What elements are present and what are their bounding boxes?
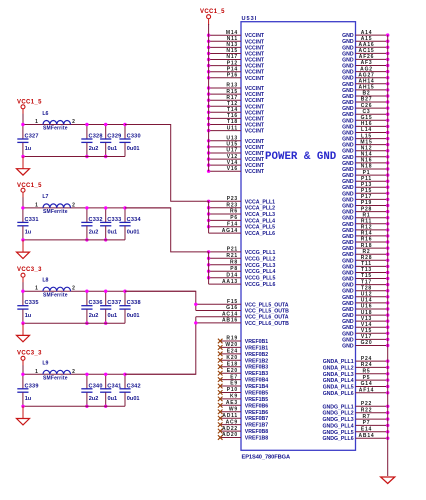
svg-text:GNDA_PLL3: GNDA_PLL3	[323, 372, 354, 378]
svg-text:AG27: AG27	[358, 72, 374, 78]
svg-text:VREF1B6: VREF1B6	[245, 410, 268, 416]
svg-text:VCCINT: VCCINT	[245, 139, 265, 145]
svg-text:VCCINT: VCCINT	[245, 92, 265, 98]
svg-text:C331: C331	[25, 217, 39, 223]
svg-text:GND: GND	[342, 325, 354, 331]
svg-text:N12: N12	[361, 145, 373, 151]
svg-text:C26: C26	[361, 103, 373, 109]
svg-text:U16: U16	[361, 304, 373, 310]
svg-text:E20: E20	[227, 368, 238, 374]
svg-text:R5: R5	[363, 369, 371, 375]
svg-text:M14: M14	[226, 30, 238, 36]
svg-text:SMFerrite: SMFerrite	[43, 126, 68, 132]
svg-text:1u: 1u	[25, 396, 32, 402]
svg-text:1u: 1u	[25, 230, 32, 236]
svg-text:F15: F15	[227, 299, 238, 305]
svg-text:EP1S40_780FBGA: EP1S40_780FBGA	[242, 455, 291, 461]
svg-text:N17: N17	[226, 54, 238, 60]
svg-text:AD11: AD11	[222, 413, 238, 419]
svg-text:VREF0B2: VREF0B2	[245, 352, 268, 358]
svg-text:P22: P22	[361, 401, 372, 407]
svg-text:V17: V17	[361, 334, 372, 340]
svg-text:VCC_PLL6_OUTB: VCC_PLL6_OUTB	[245, 321, 289, 327]
svg-text:VCCA_PLL4: VCCA_PLL4	[245, 218, 275, 224]
svg-text:GNDG_PLL6: GNDG_PLL6	[322, 436, 353, 442]
svg-text:D14: D14	[226, 272, 238, 278]
svg-text:W9: W9	[229, 407, 238, 413]
svg-text:L9: L9	[42, 361, 48, 367]
svg-text:GND: GND	[342, 39, 354, 45]
svg-text:GND: GND	[342, 222, 354, 228]
svg-text:AF14: AF14	[359, 388, 374, 394]
svg-text:C329: C329	[107, 134, 121, 140]
svg-text:VREF1B8: VREF1B8	[245, 436, 268, 442]
svg-text:C338: C338	[127, 300, 141, 306]
svg-text:2u2: 2u2	[89, 396, 99, 402]
svg-text:T17: T17	[361, 279, 372, 285]
svg-text:VCCA_PLL2: VCCA_PLL2	[245, 206, 275, 212]
svg-text:C333: C333	[107, 217, 121, 223]
svg-text:GND: GND	[342, 106, 354, 112]
svg-text:2: 2	[72, 119, 75, 125]
svg-text:R16: R16	[361, 237, 373, 243]
svg-text:0u01: 0u01	[127, 396, 140, 402]
svg-text:VREF0B6: VREF0B6	[245, 403, 268, 409]
svg-text:VREF0B5: VREF0B5	[245, 391, 268, 397]
svg-text:N11: N11	[227, 36, 238, 42]
svg-text:C330: C330	[127, 134, 141, 140]
svg-text:P13: P13	[361, 182, 372, 188]
svg-text:P14: P14	[227, 66, 238, 72]
svg-text:VCC1_5: VCC1_5	[17, 100, 42, 106]
svg-text:C337: C337	[107, 300, 121, 306]
svg-text:GND: GND	[342, 307, 354, 313]
svg-text:P16: P16	[227, 73, 238, 79]
svg-text:GND: GND	[342, 57, 354, 63]
svg-text:VCCINT: VCCINT	[245, 110, 265, 116]
svg-text:VCCA_PLL6: VCCA_PLL6	[245, 231, 275, 237]
svg-text:GND: GND	[342, 64, 354, 70]
svg-text:GNDA_PLL5: GNDA_PLL5	[323, 385, 354, 391]
svg-text:AC14: AC14	[222, 311, 238, 317]
svg-text:C339: C339	[25, 383, 39, 389]
svg-text:VREF1B7: VREF1B7	[245, 423, 268, 429]
svg-text:U15: U15	[226, 142, 238, 148]
svg-text:VREF0B3: VREF0B3	[245, 365, 268, 371]
svg-text:0u01: 0u01	[127, 230, 140, 236]
svg-text:GNDG_PLL4: GNDG_PLL4	[322, 423, 353, 429]
svg-text:VREF1B3: VREF1B3	[245, 371, 268, 377]
svg-text:0u01: 0u01	[127, 313, 140, 319]
svg-text:T18: T18	[227, 119, 238, 125]
svg-text:GND: GND	[342, 283, 354, 289]
svg-text:VCCA_PLL1: VCCA_PLL1	[245, 199, 275, 205]
svg-text:GND: GND	[342, 88, 354, 94]
svg-text:VCCINT: VCCINT	[245, 151, 265, 157]
svg-text:M15: M15	[360, 139, 372, 145]
svg-text:C327: C327	[25, 134, 39, 140]
svg-text:VCCG_PLL6: VCCG_PLL6	[245, 282, 276, 288]
svg-text:K9: K9	[230, 394, 238, 400]
svg-text:R2: R2	[363, 249, 371, 255]
svg-text:1: 1	[35, 119, 38, 125]
svg-text:GNDG_PLL2: GNDG_PLL2	[322, 411, 353, 417]
svg-text:V15: V15	[361, 328, 372, 334]
svg-text:AH15: AH15	[359, 85, 375, 91]
svg-text:H16: H16	[361, 121, 373, 127]
svg-text:GND: GND	[342, 33, 354, 39]
svg-text:R19: R19	[226, 336, 238, 342]
svg-text:SMFerrite: SMFerrite	[43, 292, 68, 298]
svg-text:GND: GND	[342, 131, 354, 137]
svg-text:P17: P17	[361, 194, 372, 200]
svg-text:VCCINT: VCCINT	[245, 70, 265, 76]
svg-text:VCCINT: VCCINT	[245, 58, 265, 64]
svg-text:0u1: 0u1	[108, 396, 118, 402]
svg-text:P10: P10	[227, 387, 238, 393]
svg-text:GNDA_PLL4: GNDA_PLL4	[323, 378, 354, 384]
svg-text:VREF0B7: VREF0B7	[245, 416, 268, 422]
svg-text:AD22: AD22	[222, 426, 238, 432]
svg-text:W20: W20	[225, 342, 238, 348]
svg-text:VCCG_PLL3: VCCG_PLL3	[245, 263, 276, 269]
svg-text:E24: E24	[227, 349, 238, 355]
svg-text:VCC1_5: VCC1_5	[17, 183, 42, 189]
svg-text:1: 1	[35, 369, 38, 375]
svg-text:0u1: 0u1	[108, 146, 118, 152]
svg-text:VCCINT: VCCINT	[245, 98, 265, 104]
svg-text:U14: U14	[361, 298, 373, 304]
svg-text:V16: V16	[227, 166, 238, 172]
svg-text:GND: GND	[342, 82, 354, 88]
svg-text:VREF0B1: VREF0B1	[245, 339, 268, 345]
svg-text:P15: P15	[361, 188, 372, 194]
svg-text:AD20: AD20	[222, 432, 238, 438]
svg-text:T15: T15	[361, 273, 372, 279]
svg-text:P8: P8	[230, 266, 238, 272]
svg-text:VCCA_PLL5: VCCA_PLL5	[245, 225, 275, 231]
svg-text:R23: R23	[226, 202, 238, 208]
svg-text:T11: T11	[361, 261, 372, 267]
svg-text:U13: U13	[226, 136, 238, 142]
svg-text:P5: P5	[363, 375, 371, 381]
svg-text:AB16: AB16	[222, 318, 238, 324]
svg-text:C342: C342	[127, 383, 141, 389]
svg-text:GND: GND	[342, 204, 354, 210]
svg-text:GND: GND	[342, 124, 354, 130]
svg-text:N16: N16	[361, 158, 373, 164]
svg-text:B27: B27	[361, 97, 373, 103]
svg-text:C334: C334	[127, 217, 142, 223]
svg-text:R18: R18	[361, 243, 373, 249]
svg-text:GND: GND	[342, 149, 354, 155]
svg-text:0u1: 0u1	[108, 313, 118, 319]
svg-text:GND: GND	[342, 258, 354, 264]
svg-text:GND: GND	[342, 191, 354, 197]
svg-text:L7: L7	[42, 194, 48, 200]
svg-text:GND: GND	[342, 216, 354, 222]
svg-text:AG14: AG14	[222, 228, 238, 234]
svg-text:POWER & GND: POWER & GND	[265, 151, 337, 163]
svg-text:GND: GND	[342, 173, 354, 179]
svg-text:T16: T16	[227, 113, 238, 119]
svg-text:VCCG_PLL4: VCCG_PLL4	[245, 269, 276, 275]
svg-text:P28: P28	[361, 206, 372, 212]
svg-text:GND: GND	[342, 295, 354, 301]
svg-text:GND: GND	[342, 234, 354, 240]
svg-text:G20: G20	[361, 340, 373, 346]
svg-text:AH14: AH14	[359, 79, 375, 85]
svg-text:2u2: 2u2	[89, 313, 99, 319]
svg-text:P19: P19	[361, 200, 372, 206]
svg-text:C335: C335	[25, 300, 39, 306]
svg-text:0u1: 0u1	[108, 230, 118, 236]
svg-text:GND: GND	[342, 264, 354, 270]
svg-text:T14: T14	[227, 107, 238, 113]
svg-text:K20: K20	[226, 355, 238, 361]
svg-text:GND: GND	[342, 197, 354, 203]
svg-text:1: 1	[35, 286, 38, 292]
svg-text:AA13: AA13	[222, 279, 238, 285]
svg-text:VREF1B5: VREF1B5	[245, 397, 268, 403]
svg-text:SMFerrite: SMFerrite	[43, 376, 68, 382]
svg-text:AC9: AC9	[226, 419, 238, 425]
svg-text:AB14: AB14	[359, 433, 375, 439]
svg-text:GND: GND	[342, 337, 354, 343]
svg-text:T28: T28	[361, 285, 372, 291]
svg-text:R15: R15	[226, 89, 238, 95]
svg-text:GND: GND	[342, 76, 354, 82]
svg-text:1u: 1u	[25, 146, 32, 152]
svg-text:VCC_PLL6_OUTA: VCC_PLL6_OUTA	[245, 315, 289, 321]
svg-text:2u2: 2u2	[89, 230, 99, 236]
svg-text:C3: C3	[363, 109, 371, 115]
svg-text:GND: GND	[342, 70, 354, 76]
svg-text:U11: U11	[227, 125, 238, 131]
svg-text:L14: L14	[361, 127, 372, 133]
svg-text:GND: GND	[342, 167, 354, 173]
svg-text:V13: V13	[361, 316, 372, 322]
svg-text:GND: GND	[342, 289, 354, 295]
svg-text:U17: U17	[226, 148, 238, 154]
svg-text:GND: GND	[342, 277, 354, 283]
svg-text:0u01: 0u01	[127, 146, 140, 152]
svg-text:GND: GND	[342, 331, 354, 337]
svg-text:R11: R11	[361, 219, 372, 225]
svg-text:GND: GND	[342, 240, 354, 246]
svg-text:E14: E14	[361, 427, 372, 433]
svg-text:C341: C341	[107, 383, 121, 389]
svg-text:VCCG_PLL1: VCCG_PLL1	[245, 250, 276, 256]
svg-text:P24: P24	[361, 356, 372, 362]
svg-text:R13: R13	[226, 83, 238, 89]
svg-text:VCCINT: VCCINT	[245, 145, 265, 151]
svg-text:GNDA_PLL1: GNDA_PLL1	[323, 359, 354, 365]
svg-text:GND: GND	[342, 252, 354, 258]
svg-text:E7: E7	[230, 374, 238, 380]
svg-text:P1: P1	[363, 170, 371, 176]
svg-text:E9: E9	[230, 381, 238, 387]
svg-text:VCCG_PLL2: VCCG_PLL2	[245, 256, 276, 262]
svg-text:VCC1_5: VCC1_5	[200, 9, 225, 15]
svg-text:VCCINT: VCCINT	[245, 163, 265, 169]
svg-text:AE3: AE3	[226, 400, 238, 406]
svg-text:VCC3_3: VCC3_3	[17, 267, 42, 273]
svg-text:GND: GND	[342, 100, 354, 106]
svg-text:P6: P6	[230, 215, 238, 221]
svg-text:GNDG_PLL5: GNDG_PLL5	[322, 430, 353, 436]
svg-text:VCCINT: VCCINT	[245, 45, 265, 51]
svg-text:GND: GND	[342, 161, 354, 167]
svg-text:GNDA_PLL6: GNDA_PLL6	[323, 391, 354, 397]
svg-text:VREF1B1: VREF1B1	[245, 345, 268, 351]
svg-text:SMFerrite: SMFerrite	[43, 209, 68, 215]
svg-text:N14: N14	[361, 152, 373, 158]
svg-text:VCCINT: VCCINT	[245, 33, 265, 39]
svg-text:AA16: AA16	[359, 42, 375, 48]
svg-text:GND: GND	[342, 112, 354, 118]
svg-text:VREF0B8: VREF0B8	[245, 429, 268, 435]
svg-text:GND: GND	[342, 319, 354, 325]
svg-text:V14: V14	[361, 322, 372, 328]
svg-text:GND: GND	[342, 45, 354, 51]
svg-text:VCC3_3: VCC3_3	[17, 350, 42, 356]
svg-text:VCCG_PLL5: VCCG_PLL5	[245, 276, 276, 282]
svg-text:GND: GND	[342, 185, 354, 191]
svg-text:G15: G15	[361, 115, 373, 121]
svg-text:VREF0B4: VREF0B4	[245, 378, 268, 384]
svg-text:GND: GND	[342, 210, 354, 216]
svg-text:P21: P21	[227, 247, 238, 253]
svg-text:R7: R7	[363, 414, 371, 420]
svg-text:GND: GND	[342, 301, 354, 307]
svg-text:R6: R6	[230, 209, 238, 215]
svg-text:U12: U12	[361, 292, 373, 298]
svg-text:2: 2	[72, 286, 75, 292]
svg-text:GND: GND	[342, 143, 354, 149]
svg-text:R17: R17	[226, 95, 238, 101]
svg-text:R28: R28	[361, 255, 373, 261]
svg-text:E18: E18	[227, 361, 238, 367]
svg-text:VCCINT: VCCINT	[245, 169, 265, 175]
svg-text:VCCINT: VCCINT	[245, 64, 265, 70]
svg-text:2: 2	[72, 202, 75, 208]
svg-text:GND: GND	[342, 118, 354, 124]
svg-text:R1: R1	[363, 212, 371, 218]
svg-text:G14: G14	[361, 381, 373, 387]
svg-text:2: 2	[72, 369, 75, 375]
svg-text:R22: R22	[361, 407, 373, 413]
svg-text:2u2: 2u2	[89, 146, 99, 152]
svg-text:VREF1B2: VREF1B2	[245, 358, 268, 364]
svg-text:VCCINT: VCCINT	[245, 86, 265, 92]
svg-text:R24: R24	[361, 362, 373, 368]
svg-text:VCCINT: VCCINT	[245, 116, 265, 122]
svg-text:R14: R14	[361, 231, 373, 237]
svg-text:L8: L8	[42, 278, 48, 284]
svg-text:V14: V14	[227, 160, 238, 166]
svg-text:1: 1	[35, 202, 38, 208]
svg-text:VCCINT: VCCINT	[245, 39, 265, 45]
svg-text:VCC_PLL5_OUTA: VCC_PLL5_OUTA	[245, 302, 289, 308]
svg-text:G16: G16	[226, 305, 238, 311]
svg-text:P12: P12	[227, 60, 238, 66]
svg-text:A15: A15	[361, 36, 373, 42]
svg-text:AG2: AG2	[360, 66, 373, 72]
svg-text:AF3: AF3	[361, 60, 373, 66]
svg-text:VCCINT: VCCINT	[245, 129, 265, 135]
svg-text:P23: P23	[227, 196, 238, 202]
svg-text:GND: GND	[342, 155, 354, 161]
svg-text:VCCINT: VCCINT	[245, 76, 265, 82]
svg-text:R21: R21	[226, 253, 238, 259]
svg-text:U53I: U53I	[242, 16, 258, 22]
svg-text:GND: GND	[342, 246, 354, 252]
svg-text:N18: N18	[361, 164, 373, 170]
svg-text:AF26: AF26	[359, 54, 374, 60]
svg-text:F14: F14	[227, 221, 238, 227]
svg-text:L6: L6	[42, 111, 48, 117]
svg-text:R8: R8	[230, 260, 238, 266]
svg-text:GNDG_PLL1: GNDG_PLL1	[322, 404, 353, 410]
svg-text:A14: A14	[361, 30, 373, 36]
svg-text:N13: N13	[226, 42, 238, 48]
svg-text:VCCINT: VCCINT	[245, 123, 265, 129]
svg-text:GNDG_PLL3: GNDG_PLL3	[322, 417, 353, 423]
svg-text:GND: GND	[342, 344, 354, 350]
svg-text:VREF1B4: VREF1B4	[245, 384, 268, 390]
svg-text:VCC_PLL5_OUTB: VCC_PLL5_OUTB	[245, 309, 289, 315]
svg-text:1u: 1u	[25, 313, 32, 319]
svg-text:GNDA_PLL2: GNDA_PLL2	[323, 365, 354, 371]
svg-text:VCCA_PLL3: VCCA_PLL3	[245, 212, 275, 218]
svg-text:P7: P7	[363, 420, 371, 426]
